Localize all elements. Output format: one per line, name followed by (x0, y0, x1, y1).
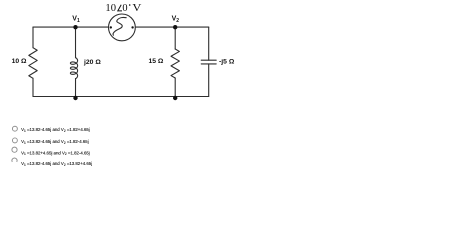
svg-text:-j5 Ω: -j5 Ω (219, 59, 235, 66)
svg-text:15 Ω: 15 Ω (148, 58, 163, 65)
svg-text:V2: V2 (172, 16, 180, 24)
capacitor C1 bottom plate (201, 63, 216, 65)
wire right branch lower (208, 64, 210, 97)
wire left branch lower (32, 78, 34, 96)
svg-text:V1 =13.82+4.65j and V2 =1.82-4: V1 =13.82+4.65j and V2 =1.82-4.65j (21, 150, 90, 156)
capacitor C1 top plate (201, 59, 216, 61)
junction dot bottom left (73, 96, 77, 100)
inductor L1 j20ohm coil (70, 58, 77, 79)
svg-text:V1 =13.82-4.65j and V2 =1.82+4: V1 =13.82-4.65j and V2 =1.82+4.65j (21, 127, 90, 133)
svg-text:10: 10 (105, 3, 116, 14)
radio button option 4 (open bottom) (12, 158, 17, 162)
radio button option 1 (12, 126, 17, 131)
node V2 junction dot top (173, 25, 177, 29)
source angle symbol (118, 5, 122, 11)
svg-text:V1 =13.82-4.65j and V2 =1.82-4: V1 =13.82-4.65j and V2 =1.82-4.65j (21, 139, 89, 145)
ac source sine squiggle (113, 17, 126, 35)
svg-text:V: V (132, 3, 142, 14)
wire bottom rail (33, 96, 209, 98)
svg-text:0: 0 (122, 3, 127, 14)
node V1 junction dot top (73, 25, 77, 29)
wire top rail left segment (33, 26, 109, 28)
svg-text:10 Ω: 10 Ω (12, 58, 27, 65)
svg-text:V1: V1 (72, 16, 80, 24)
resistor R2 15ohm zigzag (171, 49, 179, 78)
wire V2 branch upper (174, 27, 176, 49)
wire right branch upper (208, 27, 210, 60)
junction dot bottom right (173, 96, 177, 100)
svg-text:V1 =13.82-4.65j and V2 =13.82+: V1 =13.82-4.65j and V2 =13.82+4.65j (21, 161, 92, 167)
wire left branch upper (32, 27, 34, 48)
svg-text:j20 Ω: j20 Ω (83, 59, 101, 66)
wire V1 branch upper (75, 27, 77, 58)
ac source VS circle (109, 14, 136, 41)
ac source terminal dot left (110, 26, 112, 28)
radio button option 2 (12, 138, 17, 143)
resistor R1 10ohm zigzag (29, 48, 37, 79)
wire V1 branch lower (75, 79, 77, 97)
wire top rail right segment (135, 26, 208, 28)
radio button option 3 (12, 147, 17, 152)
source label degree dot (129, 4, 131, 6)
wire V2 branch lower (174, 78, 176, 97)
ac source terminal dot right (131, 26, 133, 28)
